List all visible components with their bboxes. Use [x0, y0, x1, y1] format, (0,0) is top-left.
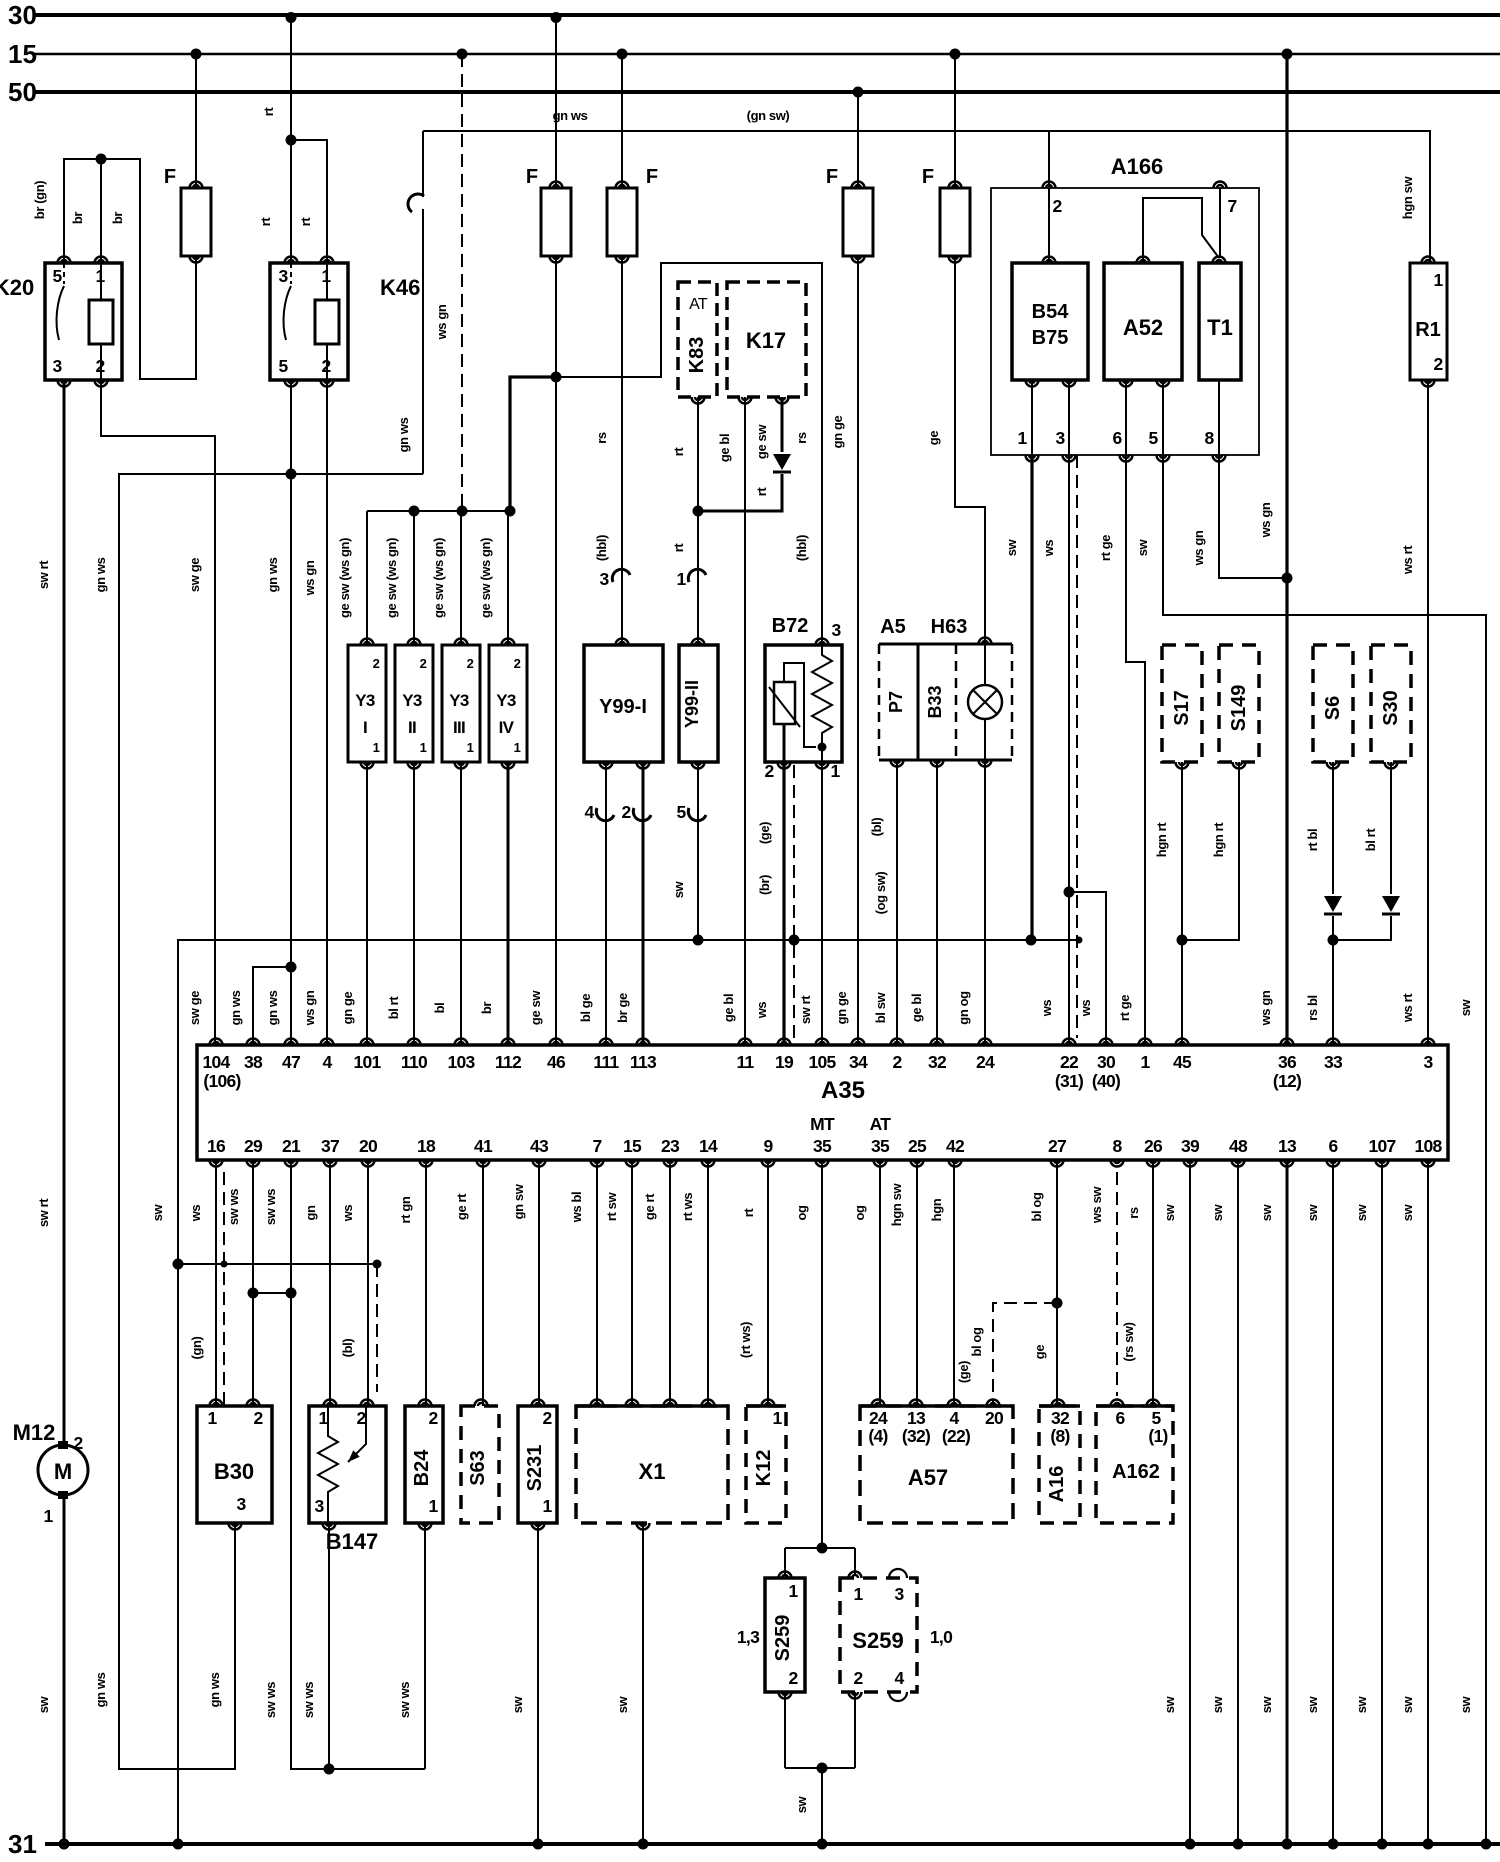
- pins of A162: [1111, 1400, 1124, 1407]
- wire rt from A35 pin 9 to K12 pin 1: [767, 1160, 769, 1406]
- svg-text:rt: rt: [741, 1208, 756, 1218]
- svg-text:113: 113: [630, 1052, 657, 1072]
- dashed alternate wire (gn) to B30 pin 1: [223, 1172, 225, 1406]
- fuse F on starter track 50: [857, 92, 859, 188]
- svg-text:sw ws: sw ws: [226, 1189, 241, 1225]
- svg-text:A166: A166: [1111, 154, 1164, 179]
- svg-text:2: 2: [621, 802, 631, 822]
- svg-text:1: 1: [43, 1506, 53, 1526]
- connector arrow 1 on Y99-II feed: [688, 569, 706, 582]
- svg-text:gn ws: gn ws: [265, 990, 280, 1025]
- relay K46 switch contact: [290, 263, 292, 284]
- svg-text:13: 13: [1278, 1136, 1297, 1156]
- junction on bus 30: [551, 12, 562, 23]
- svg-text:1,0: 1,0: [930, 1627, 953, 1647]
- svg-text:110: 110: [401, 1052, 428, 1072]
- wire ge sw (ws gn) to Y3 IV pin 2: [507, 511, 509, 645]
- svg-text:rt bl: rt bl: [1305, 829, 1320, 852]
- svg-text:ws gn: ws gn: [434, 304, 449, 340]
- junction on bus 15: [617, 49, 628, 60]
- svg-text:3: 3: [278, 266, 288, 286]
- control unit A57: [860, 1406, 1013, 1523]
- engine control unit A35: [197, 1045, 1448, 1160]
- svg-text:gn: gn: [303, 1205, 318, 1221]
- fuse F on track 15 for K20: [195, 54, 197, 188]
- svg-text:sw ws: sw ws: [397, 1682, 412, 1718]
- svg-text:5: 5: [676, 802, 686, 822]
- wire rt gn from A35 pin 18 to B24 pin 2: [425, 1160, 427, 1406]
- svg-text:(12): (12): [1273, 1071, 1301, 1091]
- svg-text:105: 105: [808, 1052, 836, 1072]
- svg-text:7: 7: [1227, 196, 1236, 216]
- svg-text:S149: S149: [1228, 685, 1250, 732]
- svg-text:2: 2: [420, 656, 427, 671]
- svg-text:1: 1: [318, 1408, 328, 1428]
- svg-text:sw: sw: [36, 1695, 51, 1713]
- svg-text:34: 34: [849, 1052, 868, 1072]
- control unit A16: [1039, 1406, 1080, 1523]
- unit T1: [1199, 263, 1241, 380]
- svg-text:ws gn: ws gn: [1258, 990, 1273, 1026]
- svg-text:sw ws: sw ws: [263, 1682, 278, 1718]
- svg-text:K83: K83: [686, 337, 708, 374]
- connector X1: [576, 1406, 728, 1523]
- wire sw ws from A35 pin 21 to sensor ground link: [291, 1160, 425, 1769]
- svg-text:(og sw): (og sw): [873, 872, 888, 915]
- junctions on ground bus 31: [59, 1839, 70, 1850]
- svg-text:21: 21: [282, 1136, 301, 1156]
- svg-text:ws: ws: [340, 1205, 355, 1223]
- sensor B54 B75: [1012, 263, 1088, 380]
- svg-text:ge: ge: [1032, 1345, 1047, 1360]
- B72 internal link: [784, 663, 816, 747]
- resistor unit R1: [1410, 263, 1447, 380]
- pins of A57: [872, 1400, 885, 1407]
- svg-text:hgn rt: hgn rt: [1211, 822, 1226, 857]
- wire ws rt from R1 pin 2 to A35 pin 3: [1427, 380, 1429, 1045]
- svg-text:rt ws: rt ws: [680, 1193, 695, 1222]
- wire gn ws horizontal link from K46 area: [119, 474, 423, 1769]
- svg-text:F: F: [164, 166, 176, 188]
- svg-text:104: 104: [202, 1052, 230, 1072]
- svg-text:MT: MT: [810, 1114, 835, 1134]
- svg-text:47: 47: [282, 1052, 300, 1072]
- wire hgn sw from gn ws rail to R1 pin 1: [1049, 131, 1430, 263]
- svg-text:(rt ws): (rt ws): [738, 1322, 753, 1358]
- svg-text:8: 8: [1112, 1136, 1122, 1156]
- svg-text:K12: K12: [753, 1450, 775, 1487]
- svg-text:gn ws: gn ws: [228, 990, 243, 1025]
- svg-text:15: 15: [623, 1136, 642, 1156]
- wire sw thick from A166 pin 1 to ground rail: [1030, 455, 1033, 940]
- svg-text:42: 42: [946, 1136, 965, 1156]
- svg-text:4: 4: [584, 802, 594, 822]
- pins of B54 B75: [1043, 257, 1056, 264]
- svg-text:br (gn): br (gn): [32, 181, 47, 219]
- svg-text:S259: S259: [772, 1615, 794, 1662]
- svg-text:29: 29: [244, 1136, 263, 1156]
- svg-text:ws gn: ws gn: [302, 990, 317, 1026]
- junction K20 supply: [96, 154, 107, 165]
- svg-text:B54: B54: [1032, 301, 1070, 323]
- pins of Y3 III: [455, 639, 468, 646]
- svg-text:hgn rt: hgn rt: [1154, 822, 1169, 857]
- solenoid valve Y3 IV: [489, 645, 527, 762]
- svg-text:rt: rt: [671, 543, 686, 553]
- pin of S17: [1176, 762, 1189, 769]
- svg-text:ge sw: ge sw: [754, 424, 769, 459]
- svg-text:bl ge: bl ge: [578, 994, 593, 1023]
- wire ge sw (ws gn) to Y3 I pin 2: [366, 511, 368, 645]
- svg-text:ws: ws: [188, 1205, 203, 1223]
- svg-text:3: 3: [894, 1584, 904, 1604]
- svg-text:ge: ge: [926, 431, 941, 446]
- svg-text:A162: A162: [1112, 1461, 1160, 1483]
- pins of A35 top row: [210, 1039, 223, 1045]
- svg-text:103: 103: [447, 1052, 475, 1072]
- wire sw from A35 pin 39 to bus 31: [1189, 1160, 1191, 1844]
- svg-text:Y99-II: Y99-II: [682, 680, 702, 728]
- svg-text:ge rt: ge rt: [454, 1193, 469, 1220]
- wire bl og from A35 pin 27 to A16 pin 32: [1056, 1160, 1058, 1406]
- svg-text:2: 2: [373, 656, 380, 671]
- svg-text:ws: ws: [1078, 1000, 1093, 1018]
- bus bar 31 (ground): [45, 1842, 1500, 1846]
- solenoid valve Y3 III: [442, 645, 480, 762]
- svg-text:gn ws: gn ws: [93, 1672, 108, 1707]
- svg-text:og: og: [794, 1205, 809, 1221]
- junction dashed (gn): [221, 1261, 228, 1268]
- pins of A5/H63: [979, 638, 992, 645]
- junction ws gn riser: [1282, 573, 1293, 584]
- svg-text:bl og: bl og: [969, 1327, 984, 1357]
- temperature sensor B72: [765, 645, 842, 762]
- svg-text:S231: S231: [524, 1445, 546, 1492]
- svg-text:2: 2: [73, 1433, 83, 1453]
- svg-text:sw: sw: [794, 1795, 809, 1813]
- svg-text:3: 3: [1055, 428, 1065, 448]
- switch S231: [518, 1406, 557, 1523]
- svg-text:rt sw: rt sw: [604, 1192, 619, 1222]
- svg-text:2: 2: [428, 1408, 438, 1428]
- pins of K46: [285, 257, 298, 264]
- wire ge sw (ws gn) to Y3 II pin 2: [413, 511, 415, 645]
- junction on bus 15: [1282, 49, 1293, 60]
- svg-text:7: 7: [592, 1136, 601, 1156]
- svg-text:sw: sw: [150, 1203, 165, 1221]
- valve Y99-II: [679, 645, 718, 762]
- svg-text:III: III: [453, 718, 465, 737]
- fuse F from bus 15 feeding Y99-I: [621, 54, 623, 188]
- wire sw ws from B24 pin 1 to ground link: [424, 1523, 426, 1769]
- svg-text:(31): (31): [1055, 1071, 1083, 1091]
- wire ws from A35 pin 20 to B147 pin 2: [367, 1160, 369, 1406]
- wire br from K20 pin 5 up to fuse loop: [64, 159, 196, 379]
- svg-text:26: 26: [1144, 1136, 1163, 1156]
- svg-text:rs bl: rs bl: [1305, 995, 1320, 1020]
- wire sw ge from K20 pin 2 to A35 pin 104: [101, 380, 215, 1045]
- svg-text:2: 2: [356, 1408, 366, 1428]
- svg-text:R1: R1: [1415, 319, 1441, 341]
- svg-text:gn ws: gn ws: [553, 108, 588, 123]
- pin of S30: [1385, 762, 1398, 769]
- svg-text:ws rt: ws rt: [1400, 993, 1415, 1023]
- relay K83 (AT): [678, 282, 717, 397]
- junction gn ws pins 38/47: [286, 962, 297, 973]
- svg-text:Y3: Y3: [496, 691, 516, 710]
- svg-text:rt ge: rt ge: [1098, 535, 1113, 561]
- pins of Y3 II: [408, 639, 421, 645]
- svg-text:sw: sw: [1458, 998, 1473, 1016]
- svg-text:1: 1: [428, 1496, 438, 1516]
- svg-text:(rs sw): (rs sw): [1121, 1322, 1136, 1361]
- junction at fuse wire: [551, 372, 562, 383]
- junction on bus 15: [457, 49, 468, 60]
- svg-text:T1: T1: [1207, 315, 1233, 340]
- svg-text:bl rt: bl rt: [386, 996, 401, 1020]
- svg-text:A16: A16: [1046, 1466, 1068, 1503]
- display unit A5 with gauge P7 and lamp H63 / B33: [879, 643, 1012, 646]
- svg-text:1: 1: [207, 1408, 217, 1428]
- svg-text:sw: sw: [1162, 1203, 1177, 1221]
- wire ge from fuse to H63: [955, 256, 985, 644]
- S259 ground link: [784, 1692, 786, 1768]
- svg-text:B30: B30: [214, 1459, 254, 1484]
- svg-text:sw: sw: [1259, 1203, 1274, 1221]
- dashed wire sw rt alternate to A35 pin 105: [793, 765, 795, 1038]
- internal switch A52 to T1: [1143, 198, 1219, 263]
- junction pin 21 wire: [286, 1288, 297, 1299]
- fuse F from bus 30 feeding A35 pin 46: [555, 15, 557, 188]
- wire rt bl from S6 through diode to A35 pin 33: [1332, 762, 1334, 894]
- unit A52: [1104, 263, 1182, 380]
- pin of K12: [762, 1400, 775, 1407]
- wire sw from A35 pin 48 to bus 31: [1237, 1160, 1239, 1844]
- diode in S6 branch: [1324, 896, 1342, 912]
- ground distribution wire sw: [178, 940, 1079, 1844]
- svg-text:ge sw (ws gn): ge sw (ws gn): [478, 538, 493, 618]
- pins of K20: [58, 257, 71, 264]
- wire ge rt from A35 pin 41 to S63: [482, 1160, 484, 1406]
- svg-text:16: 16: [207, 1136, 226, 1156]
- pins of A52: [1137, 257, 1150, 264]
- svg-text:B33: B33: [925, 685, 945, 718]
- svg-text:50: 50: [8, 77, 37, 107]
- svg-text:1: 1: [420, 740, 427, 755]
- wire gn ge from fuse to A35 pin 34: [857, 256, 859, 1045]
- junction dashed wire: [1076, 937, 1083, 944]
- wire ws gn thick from bus 15 to A35 pin 36: [1285, 54, 1288, 1045]
- wire ge sw (ws gn) to Y3 III pin 2: [460, 511, 462, 645]
- svg-text:rt: rt: [754, 487, 769, 497]
- svg-text:ge bl: ge bl: [909, 994, 924, 1022]
- svg-text:bl sw: bl sw: [873, 991, 888, 1023]
- wire hgn sw from A35 pin 25 to A57 pin 13: [916, 1160, 918, 1406]
- svg-text:35: 35: [813, 1136, 832, 1156]
- svg-text:112: 112: [495, 1052, 522, 1072]
- B72 internal thermistor: [774, 682, 795, 724]
- pins of Y99-I: [616, 639, 629, 646]
- svg-text:30: 30: [1097, 1052, 1116, 1072]
- svg-text:B24: B24: [411, 1449, 433, 1487]
- svg-text:sw: sw: [1210, 1695, 1225, 1713]
- svg-text:sw: sw: [1400, 1695, 1415, 1713]
- svg-text:sw: sw: [1305, 1203, 1320, 1221]
- svg-text:sw: sw: [1458, 1695, 1473, 1713]
- svg-text:sw: sw: [510, 1695, 525, 1713]
- solenoid valve Y3 II: [395, 645, 433, 762]
- svg-text:108: 108: [1414, 1136, 1442, 1156]
- svg-text:3: 3: [52, 356, 62, 376]
- pins of R1: [1422, 257, 1435, 264]
- svg-text:S63: S63: [467, 1450, 489, 1486]
- svg-text:13: 13: [907, 1408, 926, 1428]
- svg-text:B147: B147: [326, 1529, 379, 1554]
- svg-text:S17: S17: [1171, 690, 1193, 726]
- svg-text:1: 1: [542, 1496, 552, 1516]
- svg-text:br: br: [110, 212, 125, 225]
- svg-text:2: 2: [892, 1052, 902, 1072]
- bus bar 50 (starter): [35, 90, 1500, 94]
- svg-text:46: 46: [547, 1052, 566, 1072]
- svg-text:ws gn: ws gn: [1258, 502, 1273, 538]
- svg-text:33: 33: [1324, 1052, 1343, 1072]
- junction rt wire with diode branch: [693, 506, 704, 517]
- sensor B30: [197, 1406, 272, 1523]
- svg-text:101: 101: [353, 1052, 381, 1072]
- svg-text:(hbl): (hbl): [794, 535, 809, 561]
- svg-text:K17: K17: [746, 328, 786, 353]
- wire ws (ge)(br) from B72 pin 2 to A35 pin 19: [782, 762, 785, 1045]
- svg-text:gn sw: gn sw: [511, 1183, 526, 1219]
- wire og from A35 pin 35 AT to A57 pin 24: [879, 1160, 881, 1406]
- svg-text:1: 1: [1433, 270, 1443, 290]
- svg-text:br ge: br ge: [615, 993, 630, 1023]
- svg-text:bl rt: bl rt: [1363, 828, 1378, 852]
- junction Y99-II pin 5: [693, 935, 704, 946]
- wire hgn rt from S149 joining pin 45 wire: [1182, 762, 1239, 940]
- svg-text:rt gn: rt gn: [398, 1196, 413, 1223]
- svg-text:sw ge: sw ge: [187, 991, 202, 1025]
- relay K20 switch contact: [63, 263, 65, 284]
- wire rt ws from A35 pin 14 to X1: [707, 1160, 709, 1406]
- svg-text:S6: S6: [1322, 696, 1344, 720]
- wire ge sw from K17 through diode: [781, 397, 784, 452]
- svg-text:31: 31: [8, 1829, 37, 1859]
- connector arrow 5: [688, 808, 706, 821]
- pins of Y3 IV: [502, 639, 515, 646]
- svg-text:3: 3: [1423, 1052, 1433, 1072]
- relay K46 coil: [315, 300, 339, 344]
- junction pin 29 wire: [248, 1288, 259, 1299]
- junction S17/S149 wires: [1177, 935, 1188, 946]
- svg-text:32: 32: [1051, 1408, 1070, 1428]
- wire ws gn from K46 pin 2 to A35 pin 4: [326, 380, 328, 1045]
- svg-text:ws: ws: [1039, 1000, 1054, 1018]
- svg-text:hgn: hgn: [929, 1198, 944, 1221]
- svg-text:43: 43: [530, 1136, 549, 1156]
- svg-text:sw ws: sw ws: [301, 1682, 316, 1718]
- svg-text:23: 23: [661, 1136, 680, 1156]
- svg-text:I: I: [363, 718, 367, 737]
- svg-text:1: 1: [514, 740, 521, 755]
- junction S259 feed: [817, 1543, 828, 1554]
- svg-text:br: br: [70, 212, 85, 225]
- wire rt from bus 30 to K46 pin 3: [290, 15, 292, 263]
- svg-text:sw rt: sw rt: [798, 995, 813, 1024]
- svg-text:gn ge: gn ge: [340, 992, 355, 1025]
- wire hgn rt from S17 to A35 pin 45: [1181, 762, 1183, 1045]
- svg-text:41: 41: [474, 1136, 493, 1156]
- wire rt branch to K46 pin 1: [291, 140, 327, 263]
- svg-text:ws sw: ws sw: [1089, 1186, 1104, 1225]
- switch S149: [1219, 645, 1259, 762]
- svg-text:AT: AT: [870, 1114, 892, 1134]
- svg-text:1: 1: [373, 740, 380, 755]
- svg-text:Y3: Y3: [355, 691, 375, 710]
- wire ge sw from fuse to A35 pin 46: [555, 256, 557, 1045]
- svg-text:(ge): (ge): [757, 822, 772, 844]
- wire sw ws from B147 pin 3 to ground link: [328, 1523, 330, 1769]
- wire ws branch to A35 pin 30: [1069, 892, 1106, 1045]
- svg-text:A35: A35: [821, 1077, 865, 1104]
- svg-text:ge bl: ge bl: [717, 434, 732, 462]
- svg-text:gn ge: gn ge: [830, 416, 845, 449]
- svg-text:ge sw (ws gn): ge sw (ws gn): [384, 538, 399, 618]
- svg-text:(106): (106): [203, 1071, 240, 1091]
- gn ws distribution rail to A166 pin 2: [423, 131, 1049, 187]
- svg-text:F: F: [922, 166, 934, 188]
- svg-text:ge sw (ws gn): ge sw (ws gn): [337, 538, 352, 618]
- wire gn og from H63 to A35 pin 24: [984, 760, 986, 1045]
- pin of S6: [1327, 762, 1340, 769]
- wire bl ge from Y99-I pin 4 to A35 pin 111: [605, 762, 607, 1045]
- svg-text:2: 2: [764, 761, 774, 781]
- pin of K83: [692, 397, 705, 404]
- svg-text:3: 3: [599, 569, 609, 589]
- svg-text:1: 1: [1140, 1052, 1150, 1072]
- wire rs (hbl) from fuse to Y99-I pin 3: [621, 256, 623, 645]
- svg-text:ge sw: ge sw: [528, 990, 543, 1025]
- svg-text:1: 1: [1017, 428, 1027, 448]
- svg-text:IV: IV: [499, 718, 515, 737]
- wire og from A35 pin 35 MT to S259: [821, 1160, 823, 1548]
- wire sw rt from K20 pin 3 down to motor M12 pin 2: [63, 380, 66, 1445]
- svg-text:4: 4: [322, 1052, 332, 1072]
- control unit A162: [1096, 1406, 1173, 1523]
- pins of B147: [324, 1400, 337, 1407]
- diode in K17 output: [773, 454, 791, 470]
- wire ge bl from B33 to A35 pin 32: [936, 760, 938, 1045]
- junction on bus 15: [950, 49, 961, 60]
- diode in S30 branch: [1382, 896, 1400, 912]
- svg-text:F: F: [826, 166, 838, 188]
- svg-text:sw: sw: [1354, 1203, 1369, 1221]
- B72 internal resistor: [812, 645, 832, 762]
- svg-text:14: 14: [699, 1136, 718, 1156]
- svg-text:sw: sw: [1305, 1695, 1320, 1713]
- svg-text:6: 6: [1112, 428, 1122, 448]
- svg-text:45: 45: [1173, 1052, 1192, 1072]
- svg-text:1: 1: [772, 1408, 782, 1428]
- wire gn ws from K46 pin 5 to A35 pin 47: [290, 380, 292, 1045]
- svg-text:rs: rs: [594, 432, 609, 444]
- wire gn sw from A35 pin 43 to S231 pin 2: [538, 1160, 540, 1406]
- svg-text:(hbl): (hbl): [594, 535, 609, 561]
- svg-text:18: 18: [417, 1136, 436, 1156]
- pins of Y3 I: [361, 639, 374, 646]
- wire br from Y3 IV pin 1 to A35 pin 112: [507, 762, 510, 1045]
